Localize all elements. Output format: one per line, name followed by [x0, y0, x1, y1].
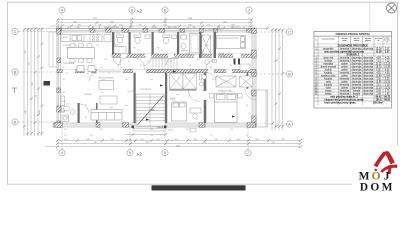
svg-text:420: 420: [25, 50, 27, 53]
svg-text:120: 120: [207, 57, 210, 59]
svg-text:5: 5: [129, 151, 131, 155]
svg-text:9.48: 9.48: [66, 48, 69, 50]
svg-text:keramika: keramika: [340, 47, 350, 50]
svg-text:4.55: 4.55: [376, 72, 381, 74]
svg-text:13.25: 13.25: [376, 63, 383, 65]
svg-text:kuhinja: kuhinja: [325, 60, 333, 62]
left dimension ticks: [23, 28, 44, 135]
header row: [314, 36, 392, 44]
svg-text:275: 275: [62, 67, 65, 69]
right axis circles: [286, 29, 292, 127]
svg-text:SKLOPIVA VRATA: SKLOPIVA VRATA: [104, 26, 120, 29]
svg-text:385: 385: [110, 107, 113, 109]
svg-text:162: 162: [197, 59, 200, 61]
svg-text:95: 95: [170, 61, 172, 63]
svg-text:parket: parket: [341, 65, 348, 68]
svg-text:TRPEZARIJA: TRPEZARIJA: [63, 62, 75, 65]
svg-text:12.80: 12.80: [384, 75, 391, 77]
svg-text:85: 85: [230, 65, 232, 67]
wc3 sink: [172, 35, 177, 39]
svg-text:260: 260: [120, 67, 123, 69]
svg-text:95: 95: [145, 57, 147, 59]
svg-text:O: O: [370, 181, 379, 192]
svg-text:ulazni hol: ulazni hol: [323, 57, 333, 59]
svg-text:260: 260: [176, 94, 179, 96]
svg-text:302: 302: [212, 79, 215, 81]
bottom-left bath toilet: [62, 106, 70, 113]
svg-text:15.38: 15.38: [376, 51, 383, 53]
svg-text:85: 85: [210, 67, 212, 69]
svg-text:7.10: 7.10: [376, 60, 381, 62]
svg-text:b: b: [315, 40, 316, 42]
svg-text:185: 185: [125, 57, 128, 59]
svg-text:7: 7: [248, 8, 250, 12]
small dim text above top wall: [104, 26, 241, 32]
svg-text:235: 235: [214, 139, 217, 141]
svg-text:keramika: keramika: [340, 83, 350, 86]
left axis letters: [14, 30, 17, 125]
dining table: [68, 48, 95, 59]
svg-text:1.53: 1.53: [385, 93, 390, 95]
svg-text:4.26: 4.26: [66, 104, 69, 106]
svg-text:385: 385: [90, 135, 93, 137]
logo accent diamond over O: [374, 168, 377, 171]
svg-text:3.07: 3.07: [385, 51, 390, 53]
svg-text:kupatilo: kupatilo: [324, 83, 333, 86]
svg-text:C: C: [288, 30, 291, 34]
svg-text:420: 420: [186, 129, 189, 131]
svg-text:120: 120: [100, 92, 103, 94]
svg-text:neto površina zajedničkih pros: neto površina zajedničkih prostorija: [324, 50, 365, 53]
wardrobe right with X: [216, 76, 253, 87]
svg-text:3.10: 3.10: [385, 84, 390, 86]
bath4 tub: [190, 34, 200, 55]
logo roof left slope red: [374, 152, 387, 168]
logo red tail over J: [387, 166, 392, 175]
svg-text:disperzija: disperzija: [363, 56, 374, 59]
svg-text:KUHINJA: KUHINJA: [63, 44, 71, 47]
logo white backing: [352, 146, 400, 192]
page background: [0, 0, 400, 192]
svg-text:388: 388: [32, 82, 34, 85]
svg-text:naziv prostorije: naziv prostorije: [322, 38, 335, 41]
svg-text:disperzija: disperzija: [363, 71, 374, 74]
svg-text:13.25: 13.25: [221, 92, 225, 94]
balcony bottom right: [256, 90, 268, 127]
svg-text:86.75: 86.75: [384, 96, 391, 98]
svg-text:keramika: keramika: [352, 83, 362, 86]
svg-text:disperzija: disperzija: [352, 56, 363, 59]
svg-text:trpezarija: trpezarija: [323, 62, 333, 65]
svg-text:90: 90: [108, 73, 110, 75]
terrace label marker dark: [44, 81, 51, 86]
svg-text:260: 260: [29, 62, 31, 65]
svg-text:160: 160: [180, 57, 183, 59]
top dimension ticks: [56, 18, 269, 29]
svg-text:fasada: fasada: [353, 90, 361, 92]
fridge: [104, 35, 111, 42]
svg-text:320: 320: [281, 139, 284, 141]
svg-text:plafona: plafona: [365, 40, 372, 42]
svg-text:104.8: 104.8: [376, 98, 383, 101]
svg-text:60/60: 60/60: [116, 33, 120, 35]
elevation mark left: [12, 88, 17, 93]
svg-text:terasa: terasa: [325, 92, 332, 95]
svg-text:160: 160: [140, 139, 143, 141]
left dimension chain lines: [24, 29, 42, 136]
terrace strip left of building: [49, 32, 57, 67]
svg-text:730: 730: [93, 142, 96, 144]
svg-text:disperzija: disperzija: [352, 59, 363, 62]
svg-text:948: 948: [25, 110, 27, 113]
svg-text:230: 230: [138, 25, 141, 27]
svg-text:SOBA: SOBA: [219, 52, 225, 55]
svg-text:200: 200: [255, 139, 258, 141]
svg-text:STEPENIŠTE: STEPENIŠTE: [140, 88, 152, 91]
kitchen counter: [61, 35, 102, 42]
svg-text:232: 232: [188, 25, 191, 27]
svg-text:disperzija: disperzija: [363, 65, 374, 68]
bottom-left bath sink: [70, 110, 75, 115]
svg-text:96: 96: [196, 119, 198, 121]
svg-text:OSNOVA PRVOG SPRATA: OSNOVA PRVOG SPRATA: [335, 32, 370, 36]
mid bedroom desk: [190, 108, 201, 113]
stair diagonal cut: [138, 96, 164, 126]
left exterior wall window band: [57, 29, 61, 127]
svg-text:disperzija: disperzija: [363, 83, 374, 86]
svg-text:DNEVNI BORAVAK: DNEVNI BORAVAK: [98, 77, 115, 80]
svg-text:dnevni boravak: dnevni boravak: [320, 65, 337, 68]
svg-text:7.10: 7.10: [385, 60, 390, 62]
page border frame: [8, 2, 398, 184]
ensuite2 toilet and sink: [199, 75, 206, 87]
svg-text:disperzija: disperzija: [352, 47, 363, 50]
svg-text:16x17,8/28: 16x17,8/28: [127, 91, 135, 93]
svg-text:10.95: 10.95: [384, 81, 391, 83]
svg-text:60: 60: [75, 45, 77, 47]
svg-text:185: 185: [62, 92, 65, 94]
bottom wall dark piers: [54, 123, 256, 127]
stairwell lower flight: [136, 94, 165, 126]
leader arrow marks (small dark): [146, 71, 235, 121]
svg-text:stepenište: stepenište: [323, 47, 334, 50]
svg-text:160: 160: [156, 139, 159, 141]
svg-text:4: 4: [61, 151, 63, 155]
right dimension ticks: [271, 29, 285, 128]
svg-text:keramika: keramika: [352, 77, 362, 80]
door arcs: [80, 58, 257, 113]
interior tiny dimension marks: [62, 33, 248, 137]
svg-text:▹2: ▹2: [137, 151, 142, 156]
svg-text:60: 60: [163, 33, 165, 35]
svg-text:3.07: 3.07: [385, 48, 390, 50]
svg-text:350: 350: [150, 129, 153, 131]
logo base swash red: [380, 165, 397, 173]
svg-text:180: 180: [193, 139, 196, 141]
svg-text:3.05: 3.05: [376, 93, 381, 95]
svg-text:140: 140: [224, 57, 227, 59]
hall door jambs: [234, 59, 241, 65]
svg-text:90/120: 90/120: [63, 37, 68, 39]
svg-text:505: 505: [223, 21, 226, 23]
svg-text:disperzija: disperzija: [363, 59, 374, 62]
svg-text:4.26: 4.26: [376, 57, 381, 59]
top-right bed: [217, 36, 246, 49]
svg-text:keramika: keramika: [352, 71, 362, 74]
mid wall: [57, 70, 256, 73]
svg-text:spavaća soba: spavaća soba: [321, 75, 336, 77]
svg-text:237: 237: [110, 139, 113, 141]
hall cabinet: [240, 64, 250, 71]
svg-text:590: 590: [100, 129, 103, 131]
svg-text:190: 190: [64, 139, 67, 141]
svg-text:5: 5: [131, 8, 133, 12]
svg-text:4.55: 4.55: [385, 72, 390, 74]
bottom axis circles: [59, 150, 251, 156]
svg-text:4: 4: [61, 8, 63, 12]
svg-text:405: 405: [150, 79, 153, 81]
svg-text:6.35: 6.35: [376, 69, 381, 71]
svg-text:162: 162: [119, 25, 122, 27]
svg-text:keramika: keramika: [340, 71, 350, 74]
svg-text:DNEVNA: DNEVNA: [84, 93, 92, 96]
svg-text:disperzija: disperzija: [363, 62, 374, 65]
master nightstands: [210, 94, 243, 99]
svg-text:disperzija: disperzija: [363, 47, 374, 50]
svg-text:245: 245: [86, 139, 89, 141]
svg-text:6: 6: [164, 8, 166, 12]
MOJ DOM logo: [352, 146, 400, 193]
svg-text:terasa: terasa: [325, 89, 332, 92]
svg-text:180: 180: [86, 73, 89, 75]
top dimension chain lines: [24, 20, 268, 29]
svg-text:neto površina stana br. 3: neto površina stana br. 3: [330, 95, 358, 98]
svg-text:ZAJEDNIČKE PROSTORIJE: ZAJEDNIČKE PROSTORIJE: [338, 44, 369, 47]
svg-text:825: 825: [203, 142, 206, 144]
svg-text:19.30: 19.30: [384, 66, 391, 68]
svg-text:disperzija: disperzija: [352, 68, 363, 71]
master bed: [215, 94, 238, 123]
svg-text:SLOBODNA ČESTICA: SLOBODNA ČESTICA: [205, 29, 224, 32]
living sofa: [91, 110, 122, 121]
svg-text:m²: m²: [377, 39, 380, 42]
svg-text:90: 90: [140, 65, 142, 67]
svg-text:M: M: [382, 181, 393, 192]
svg-text:hodnik: hodnik: [325, 69, 333, 71]
svg-text:350: 350: [145, 142, 148, 144]
title row: [314, 32, 392, 37]
svg-text:keramika: keramika: [340, 92, 350, 95]
svg-text:disperzija: disperzija: [352, 86, 363, 89]
svg-text:keramika: keramika: [340, 77, 350, 80]
svg-text:355: 355: [110, 21, 113, 23]
svg-text:160: 160: [207, 25, 210, 27]
left dimension numbers: [25, 50, 41, 113]
svg-text:120: 120: [96, 45, 99, 47]
wc3 toilet: [163, 35, 170, 44]
bottom dimension ticks: [56, 139, 302, 148]
bottom-left washer: [62, 115, 69, 122]
north symbol top right: [387, 3, 397, 13]
svg-text:STAN BR. 3: STAN BR. 3: [346, 53, 359, 56]
svg-text:110: 110: [64, 135, 67, 137]
svg-text:parket: parket: [341, 80, 348, 83]
bath4 toilet: [181, 43, 186, 49]
right axis dashed leaders: [256, 32, 286, 124]
wardrobe row with X (closets): [170, 74, 197, 90]
bottom dimension numbers: [64, 139, 284, 147]
svg-text:1415: 1415: [93, 18, 97, 20]
svg-text:4.26: 4.26: [385, 57, 390, 59]
fold mark line top right: [369, 2, 371, 31]
bath1 tub: [114, 47, 126, 54]
svg-text:10.95: 10.95: [376, 81, 383, 83]
svg-text:95: 95: [128, 61, 130, 63]
svg-text:soba: soba: [326, 87, 332, 89]
planters on mid wall: [77, 66, 95, 72]
coffee table: [100, 96, 117, 104]
bottom dimension chain lines: [45, 141, 300, 147]
svg-text:520: 520: [271, 142, 274, 144]
svg-text:19.30: 19.30: [376, 66, 383, 68]
logo roof right slope red: [384, 151, 395, 164]
kitchen stove burners: [92, 36, 98, 42]
right dimension chain lines: [272, 29, 283, 130]
svg-text:disperzija: disperzija: [352, 65, 363, 68]
svg-text:parket: parket: [341, 68, 348, 71]
svg-text:7: 7: [247, 151, 249, 155]
svg-text:disperzija: disperzija: [363, 92, 374, 95]
svg-text:parket: parket: [341, 86, 348, 89]
svg-text:1180: 1180: [188, 18, 192, 20]
right axis letters: [288, 30, 291, 126]
svg-text:soba: soba: [326, 81, 332, 83]
top wall dark piers: [57, 28, 252, 32]
svg-text:19.30: 19.30: [101, 80, 105, 82]
room labels (tiny gray text): [62, 44, 232, 103]
svg-text:13.25: 13.25: [384, 63, 391, 65]
svg-text:disperzija: disperzija: [363, 80, 374, 83]
svg-text:75: 75: [66, 117, 68, 119]
svg-text:m²: m²: [386, 40, 389, 43]
svg-text:fasada: fasada: [353, 93, 361, 95]
svg-text:keramika: keramika: [340, 56, 350, 59]
svg-text:disperzija: disperzija: [363, 89, 374, 92]
right exterior wall window band: [252, 29, 256, 127]
svg-text:95: 95: [85, 105, 87, 107]
svg-text:disperzija: disperzija: [363, 68, 374, 71]
hall small fixtures: [205, 59, 217, 64]
top exterior wall window band: [57, 29, 252, 32]
svg-text:395: 395: [73, 21, 76, 23]
tall closet with X: [202, 35, 211, 54]
axis circle 1 top: [59, 7, 252, 13]
stair upper flight treads: [151, 59, 179, 70]
svg-text:disperzija: disperzija: [352, 74, 363, 77]
mid bedroom bed: [172, 102, 187, 121]
svg-text:210: 210: [125, 105, 128, 107]
svg-text:96: 96: [246, 135, 248, 137]
dining chairs: [70, 44, 92, 62]
svg-text:410: 410: [230, 91, 233, 93]
svg-text:kupatilo: kupatilo: [324, 71, 333, 74]
axis numbers top: [61, 8, 250, 12]
svg-text:keramika: keramika: [340, 59, 350, 62]
svg-text:315: 315: [39, 110, 41, 113]
svg-text:2595: 2595: [176, 145, 180, 147]
svg-text:KUP.: KUP.: [62, 101, 66, 103]
svg-text:75: 75: [183, 33, 185, 35]
wc2 sink: [145, 35, 150, 39]
svg-text:90: 90: [66, 73, 68, 75]
wc2 toilet: [134, 35, 141, 44]
svg-text:252: 252: [210, 135, 213, 137]
scale bar bottom: [152, 185, 246, 190]
svg-text:disperzija: disperzija: [352, 80, 363, 83]
svg-text:3PL60/90: 3PL60/90: [168, 27, 176, 29]
tv cabinet: [61, 96, 65, 112]
svg-text:4PL60/200: 4PL60/200: [232, 27, 241, 29]
svg-text:88: 88: [147, 61, 149, 63]
svg-text:disperzija: disperzija: [352, 62, 363, 65]
svg-text:ukupna neto površina prvog spr: ukupna neto površina prvog sprata: [325, 98, 365, 101]
svg-text:disperzija: disperzija: [363, 74, 374, 77]
svg-text:6.35: 6.35: [385, 69, 390, 71]
svg-text:11.20: 11.20: [376, 87, 382, 89]
left axis circle E: [12, 28, 18, 125]
svg-text:11.20: 11.20: [384, 87, 390, 89]
svg-text:120: 120: [150, 135, 153, 137]
interior partitions vertical: [78, 32, 249, 123]
svg-text:kupatilo: kupatilo: [324, 77, 333, 80]
svg-text:105: 105: [188, 65, 191, 67]
svg-text:keramika: keramika: [340, 89, 350, 92]
svg-text:disperzija: disperzija: [363, 86, 374, 89]
svg-text:3.10: 3.10: [376, 84, 381, 86]
svg-text:KUP.: KUP.: [115, 45, 119, 47]
corridor wall upper: [112, 54, 252, 57]
left axis dashed leaders: [18, 32, 58, 123]
svg-text:3.35: 3.35: [385, 78, 390, 80]
svg-text:±0,00: ±0,00: [168, 129, 173, 131]
axis leaders top (dashed): [62, 13, 249, 33]
bottom axis numbers: [61, 151, 249, 155]
table grid + rows: [314, 36, 392, 105]
svg-text:120: 120: [104, 59, 107, 61]
svg-text:KUPATILO: KUPATILO: [181, 50, 190, 53]
svg-text:C: C: [14, 30, 17, 34]
svg-text:188: 188: [236, 139, 239, 141]
svg-text:parket: parket: [341, 62, 348, 65]
svg-text:60: 60: [85, 117, 87, 119]
svg-text:parket: parket: [341, 74, 348, 77]
svg-text:115: 115: [100, 67, 103, 69]
svg-text:5.45: 5.45: [376, 90, 381, 92]
bottom exterior wall window band: [53, 123, 256, 127]
svg-text:396: 396: [64, 129, 67, 131]
closet front wall line: [170, 89, 197, 91]
svg-text:disperzija: disperzija: [363, 77, 374, 80]
svg-text:▹2: ▹2: [137, 8, 142, 13]
svg-text:245: 245: [98, 25, 101, 27]
svg-text:3.10: 3.10: [137, 50, 140, 52]
bath4 sink: [181, 35, 187, 39]
top dimension numbers: [60, 18, 256, 29]
left wall dark piers: [57, 28, 61, 127]
svg-text:2.73: 2.73: [385, 90, 390, 92]
svg-text:12.80: 12.80: [376, 75, 383, 77]
svg-text:6: 6: [164, 151, 166, 155]
